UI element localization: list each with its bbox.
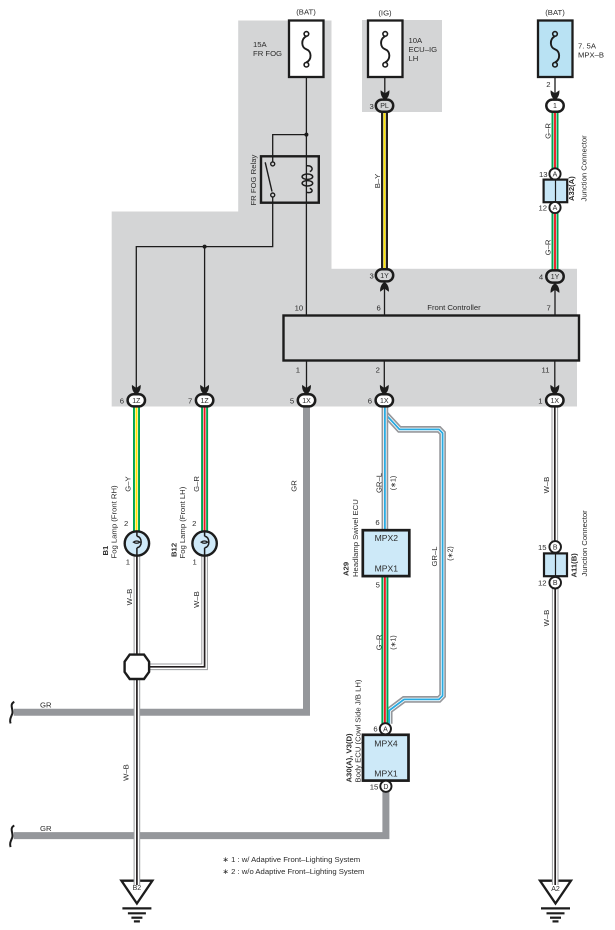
wire W-B from A11(B) to ground A2 (552, 588, 559, 882)
arrow into 7(1Z) (200, 385, 209, 395)
svg-text:∗ 2 : w/o Adaptive Front–Light: ∗ 2 : w/o Adaptive Front–Lighting System (223, 867, 365, 876)
svg-text:A11(B): A11(B) (570, 553, 579, 578)
svg-text:1: 1 (296, 366, 300, 375)
svg-text:1Z: 1Z (201, 398, 210, 405)
svg-text:G–R: G–R (375, 634, 384, 650)
arrow into connector 1 (MPX-B) (551, 90, 560, 100)
wire from fuse F2 to connector PL (384, 67, 386, 99)
svg-text:Junction Connector: Junction Connector (579, 135, 588, 202)
svg-text:MPX2: MPX2 (375, 533, 399, 543)
svg-text:A29: A29 (341, 562, 350, 576)
svg-text:G–R: G–R (543, 239, 552, 255)
svg-text:Junction Connector: Junction Connector (580, 510, 589, 577)
arrow into 1(1X) (550, 385, 559, 395)
svg-text:1X: 1X (302, 398, 311, 405)
wire from 3(1Y) to Front Controller pin 6 (384, 281, 386, 316)
svg-text:2: 2 (124, 519, 128, 528)
svg-text:B: B (553, 544, 558, 551)
wire G-R from 7(1Z) to fog lamp B12 (201, 407, 208, 533)
wire W-B from 1(1X) to junction connector A11(B) (551, 407, 558, 542)
node junction dot on fuse wire (304, 133, 308, 137)
arrow up into 4(1Y) (551, 283, 560, 293)
wire GR shielded from A30 pin 15 down and left to continuation (14, 790, 386, 836)
svg-text:(∗1): (∗1) (390, 635, 397, 649)
svg-text:2: 2 (546, 80, 550, 89)
connector ellipse 1 1X (546, 394, 563, 406)
svg-text:15: 15 (538, 543, 547, 552)
svg-text:A32(A): A32(A) (567, 176, 576, 201)
continuation squiggle GR lower (10, 826, 14, 848)
svg-text:G–Y: G–Y (124, 476, 133, 491)
svg-text:2: 2 (192, 519, 196, 528)
wire branch from node to relay switch contact (273, 135, 307, 162)
svg-text:B2: B2 (133, 885, 142, 892)
svg-text:G–R: G–R (192, 476, 201, 492)
junction connector A32(A) body (544, 180, 568, 203)
connector ellipse 7 1Z (196, 394, 213, 406)
connector ellipse 1 (MPX-B) (546, 100, 563, 112)
continuation squiggle GR upper (10, 702, 14, 724)
wire GR shielded from 5(1X) down and left to continuation (14, 407, 307, 713)
svg-text:W–B: W–B (192, 591, 201, 608)
relay switch contact (265, 162, 275, 197)
svg-text:7. 5A: 7. 5A (578, 42, 597, 51)
svg-text:(BAT): (BAT) (545, 8, 565, 17)
svg-text:1: 1 (553, 103, 557, 110)
gray harness region upper-left block (238, 21, 331, 407)
svg-text:15A: 15A (253, 40, 268, 49)
svg-text:A2: A2 (551, 886, 560, 893)
svg-text:ECU–IG: ECU–IG (409, 45, 438, 54)
relay FR FOG Relay box (261, 156, 319, 202)
gray harness region left extension (112, 212, 240, 407)
svg-text:A30(A), V3(D): A30(A), V3(D) (344, 733, 353, 783)
svg-text:A: A (383, 726, 388, 733)
svg-text:MPX1: MPX1 (375, 563, 399, 573)
fuse 10A ECU-IG LH (368, 21, 403, 78)
arrow into PL (381, 90, 390, 100)
wire G-R from connector 1 to junction connector A32(A) (552, 112, 559, 169)
svg-text:PL: PL (380, 103, 389, 110)
connector ellipse 3 PL (376, 100, 393, 112)
gray harness region IG fuse block (362, 20, 442, 112)
wire Front Controller pin 2 to 6(1X) (383, 361, 385, 397)
svg-text:10: 10 (295, 303, 304, 312)
svg-text:(BAT): (BAT) (296, 8, 316, 17)
svg-text:GR: GR (290, 480, 299, 492)
octagon splice joint (125, 655, 150, 679)
svg-text:Body ECU (Cowl Side J/B LH): Body ECU (Cowl Side J/B LH) (354, 679, 363, 782)
svg-text:A: A (553, 205, 558, 212)
svg-text:Front Controller: Front Controller (427, 303, 481, 312)
svg-text:12: 12 (538, 579, 547, 588)
svg-text:Fog Lamp (Front RH): Fog Lamp (Front RH) (110, 485, 119, 558)
wire from fuse F1 to relay coil and Front Controller pin 10 (305, 67, 307, 316)
svg-text:GR: GR (40, 824, 52, 833)
arrow up into 3(1Y) (380, 282, 389, 292)
wire B-Y from PL to 1Y (381, 112, 388, 270)
junction connector A11(B) pin 12 circle B (549, 577, 561, 589)
svg-text:W–B: W–B (542, 610, 551, 627)
svg-text:6: 6 (368, 396, 372, 405)
wire from relay switch down and left to lamp branches (136, 197, 272, 396)
svg-text:FR FOG: FR FOG (253, 49, 282, 58)
connector circle 6 A (A30) (380, 723, 391, 734)
connector ellipse 6 1X (376, 394, 393, 406)
connector ellipse 4 1Y (546, 270, 563, 282)
svg-text:6: 6 (377, 303, 381, 312)
wire Front Controller pin 1 to 5(1X) (306, 361, 308, 397)
svg-text:B–Y: B–Y (373, 174, 382, 189)
wire W-B from octagon splice to ground B2 (134, 679, 141, 883)
svg-text:7: 7 (547, 303, 551, 312)
svg-text:W–B: W–B (122, 764, 131, 781)
wire from 4(1Y) to Front Controller pin 7 (554, 282, 556, 316)
svg-text:GR–L: GR–L (430, 546, 439, 567)
fuse 15A FR FOG (289, 21, 324, 78)
svg-text:6: 6 (120, 396, 124, 405)
svg-text:Fog Lamp (Front LH): Fog Lamp (Front LH) (178, 486, 187, 558)
svg-text:3: 3 (370, 102, 374, 111)
wire Front Controller pin 11 to 1(1X) (554, 361, 556, 397)
svg-text:6: 6 (373, 725, 377, 734)
svg-text:Headlamp Swivel ECU: Headlamp Swivel ECU (351, 499, 360, 577)
svg-text:1Y: 1Y (380, 273, 389, 280)
svg-text:1: 1 (538, 396, 542, 405)
svg-text:11: 11 (542, 366, 550, 375)
relay coil (302, 166, 313, 193)
fog lamp B1 bulb (125, 531, 149, 555)
svg-text:7: 7 (188, 396, 192, 405)
svg-text:D: D (383, 784, 388, 791)
wire G-R (*1) from A29 MPX1 pin 5 to A30 pin 6 (381, 576, 388, 724)
svg-text:GR: GR (40, 701, 52, 710)
Front Controller box (284, 316, 580, 361)
svg-text:5: 5 (290, 396, 294, 405)
wire GR-L (*1) from 6(1X) to A29 MPX2 pin 6 (382, 407, 389, 531)
svg-text:(∗2): (∗2) (448, 546, 455, 560)
fuse 7.5A MPX-B (538, 21, 573, 78)
arrow into 5(1X) (302, 385, 311, 395)
wire W-B from fog lamp B12 to octagon splice (148, 555, 205, 667)
svg-text:13: 13 (539, 170, 548, 179)
svg-text:LH: LH (409, 54, 419, 63)
connector ellipse 3 1Y (376, 269, 393, 281)
node junction dot on branch wire (203, 245, 207, 249)
junction connector A11(B) body (544, 553, 567, 576)
svg-text:2: 2 (376, 366, 380, 375)
svg-text:A: A (553, 171, 558, 178)
svg-text:MPX4: MPX4 (374, 739, 398, 749)
junction connector A32(A) pin 13 circle A (549, 168, 560, 179)
arrow into 6(1Z) (132, 385, 141, 395)
connector ellipse 6 1Z (128, 394, 145, 406)
wire from fuse F3 to connector 1 (554, 67, 556, 99)
svg-text:1X: 1X (380, 398, 389, 405)
svg-text:(∗1): (∗1) (390, 476, 397, 490)
A30 Body ECU box (363, 735, 409, 781)
svg-text:FR FOG Relay: FR FOG Relay (249, 155, 258, 206)
ground A2 (540, 879, 571, 921)
wire branch to 7(1Z) (204, 247, 206, 396)
connector circle 15 D (A30) (380, 781, 391, 792)
svg-text:6: 6 (375, 518, 379, 527)
svg-text:12: 12 (538, 203, 547, 212)
svg-text:∗ 1 : w/ Adaptive Front–Lighti: ∗ 1 : w/ Adaptive Front–Lighting System (223, 855, 361, 864)
A29 Headlamp Swivel ECU box (363, 530, 410, 576)
svg-text:1Z: 1Z (132, 398, 141, 405)
svg-text:MPX–B: MPX–B (578, 51, 604, 60)
wire W-B from fog lamp B1 to octagon splice (134, 555, 141, 655)
svg-text:10A: 10A (409, 36, 424, 45)
svg-text:W–B: W–B (542, 477, 551, 494)
wire G-Y from 6(1Z) to fog lamp B1 (133, 407, 140, 533)
svg-text:W–B: W–B (125, 589, 134, 606)
svg-text:G–R: G–R (543, 123, 552, 139)
svg-text:1X: 1X (551, 398, 560, 405)
svg-text:5: 5 (376, 580, 380, 589)
svg-text:B: B (553, 580, 558, 587)
svg-text:4: 4 (539, 273, 544, 282)
wire GR-L bypass (*2) around A29 (385, 414, 442, 724)
junction connector A11(B) pin 15 circle B (549, 541, 561, 553)
arrow into 6(1X) (380, 385, 389, 395)
svg-text:(IG): (IG) (378, 9, 392, 18)
wire G-R from A32(A) to 4(1Y) (552, 213, 559, 270)
svg-text:1: 1 (193, 557, 197, 566)
svg-text:15: 15 (370, 782, 379, 791)
connector ellipse 5 1X (298, 394, 315, 406)
svg-text:3: 3 (370, 271, 374, 280)
fog lamp B12 bulb (192, 531, 216, 555)
junction connector A32(A) pin 12 circle A (549, 202, 560, 213)
svg-text:1: 1 (126, 557, 130, 566)
gray harness region mid band (331, 269, 578, 407)
ground B2 (121, 879, 152, 921)
svg-text:1Y: 1Y (551, 274, 560, 281)
svg-text:MPX1: MPX1 (374, 769, 398, 779)
svg-text:GR–L: GR–L (375, 472, 384, 493)
